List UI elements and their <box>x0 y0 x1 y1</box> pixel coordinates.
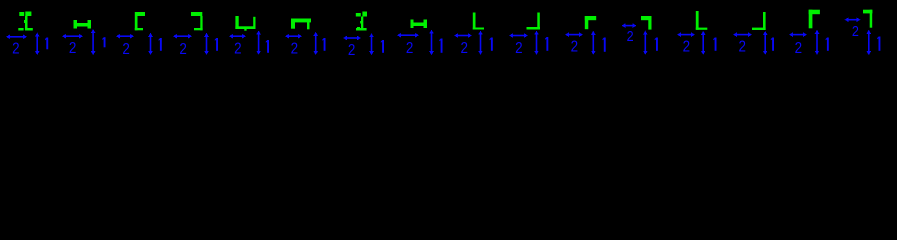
glyph G9 bottom-left corner <box>473 13 476 30</box>
height label 1 (G15) <box>827 38 829 51</box>
height arrow G3 <box>148 33 153 37</box>
height label 1 (G5) <box>267 40 269 53</box>
height label 1 (G4) <box>216 38 218 51</box>
height arrow G1 <box>35 33 40 37</box>
svg-text:2: 2 <box>234 41 241 58</box>
group G11 <box>565 16 606 56</box>
height arrow G15 <box>815 30 820 34</box>
height arrow G5 <box>256 31 261 35</box>
svg-text:2: 2 <box>738 39 745 56</box>
width arrow G9 <box>454 33 458 38</box>
height label 1 (G9) <box>491 38 493 51</box>
height label 1 (G7) <box>382 40 384 53</box>
width arrow G4 <box>173 34 177 39</box>
height arrow G2 <box>91 29 96 33</box>
group G1 <box>6 12 48 59</box>
glyph G14 bottom-right corner <box>763 12 766 30</box>
svg-text:2: 2 <box>683 39 690 56</box>
height label 1 (G13) <box>715 38 717 51</box>
width arrow G5 <box>229 34 233 39</box>
width arrow G7 <box>343 36 347 41</box>
height label 1 (G8) <box>441 39 443 53</box>
height label 1 (G3) <box>160 38 162 51</box>
group G9 <box>454 13 493 58</box>
height label 1 (G2) <box>104 37 106 47</box>
group G6 <box>285 19 326 59</box>
glyph G12 top-right corner <box>641 16 652 20</box>
width arrow G10 <box>509 33 513 38</box>
height arrow G6 <box>313 32 318 36</box>
svg-text:2: 2 <box>571 39 578 56</box>
glyph G10 bottom-right corner <box>537 13 540 30</box>
width arrow G15 <box>789 32 793 37</box>
glyph G2 horizontal strand with end caps <box>74 20 78 29</box>
height arrow G7 <box>369 33 374 37</box>
height arrow G12 <box>643 31 648 35</box>
group G14 <box>733 12 774 56</box>
width arrow G14 <box>733 32 737 37</box>
height label 1 (G1) <box>46 38 48 50</box>
height arrow G16 <box>867 30 872 34</box>
width arrow G8 <box>397 33 401 38</box>
group G5 <box>229 16 269 58</box>
group G2 <box>62 20 106 58</box>
glyph G7 vertical strand with end caps <box>356 13 361 17</box>
height arrow G4 <box>204 33 209 37</box>
width arrow G12 (raised) <box>622 23 626 28</box>
group G13 <box>677 11 717 56</box>
glyph G8 horizontal strand with end caps <box>411 20 414 29</box>
group G8 <box>397 20 443 58</box>
group G4 <box>173 12 218 58</box>
height arrow G8 <box>429 30 434 34</box>
group G10 <box>509 13 548 58</box>
width arrow G16 (raised) <box>845 17 849 22</box>
glyph G15 top-left corner <box>809 10 820 15</box>
svg-text:2: 2 <box>460 40 467 57</box>
width arrow G1 <box>6 35 10 40</box>
height arrow G10 <box>534 31 539 35</box>
svg-text:2: 2 <box>406 40 413 57</box>
svg-text:2: 2 <box>291 41 298 58</box>
height label 1 (G12) <box>656 38 658 51</box>
width arrow G2 <box>62 34 66 39</box>
group G16 <box>845 10 881 56</box>
height label 1 (G16) <box>879 37 881 51</box>
width arrow G3 <box>116 34 120 39</box>
glyph G13 bottom-left corner <box>696 11 699 30</box>
glyph G6 cap <box>291 19 311 23</box>
height label 1 (G6) <box>324 38 326 51</box>
svg-text:2: 2 <box>348 42 355 59</box>
glyph G4 right bracket <box>191 12 202 16</box>
height arrow G14 <box>763 31 768 35</box>
svg-text:2: 2 <box>122 41 129 58</box>
svg-text:2: 2 <box>627 27 634 44</box>
glyph G3 left bracket <box>135 12 145 16</box>
group G7 <box>343 12 384 60</box>
height arrow G9 <box>478 31 483 35</box>
glyph G1 vertical strand with end caps <box>19 12 24 16</box>
svg-text:2: 2 <box>12 41 19 58</box>
svg-text:2: 2 <box>795 40 802 57</box>
svg-text:2: 2 <box>515 40 522 57</box>
glyph G16 top-right corner <box>863 10 872 14</box>
glyph G11 top-left corner <box>585 16 596 20</box>
height label 1 (G14) <box>772 38 774 51</box>
height arrow G11 <box>591 31 596 35</box>
svg-text:2: 2 <box>69 40 76 57</box>
height label 1 (G10) <box>546 37 548 51</box>
group G12 <box>622 16 658 55</box>
svg-text:2: 2 <box>179 41 186 58</box>
svg-text:2: 2 <box>852 22 859 39</box>
group G15 <box>789 10 829 57</box>
width arrow G6 <box>285 34 289 39</box>
width arrow G11 <box>565 32 569 37</box>
group G3 <box>116 12 162 58</box>
height label 1 (G11) <box>604 38 606 52</box>
glyph G5 cup <box>235 16 238 29</box>
height arrow G13 <box>701 31 706 35</box>
width arrow G13 <box>677 32 681 37</box>
